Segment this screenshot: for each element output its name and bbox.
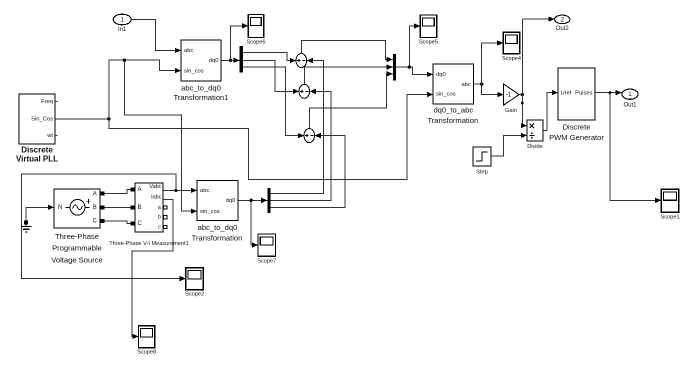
svg-text:Transformation1: Transformation1 [173, 93, 228, 102]
svg-text:2: 2 [560, 16, 564, 23]
svg-text:B: B [93, 205, 97, 211]
svg-text:1: 1 [120, 17, 124, 24]
svg-text:Freq: Freq [41, 99, 53, 105]
svg-text:PWM Generator: PWM Generator [549, 133, 604, 142]
svg-text:Discrete: Discrete [21, 146, 53, 155]
svg-text:Scope6: Scope6 [247, 39, 266, 45]
svg-text:abc_to_dq0: abc_to_dq0 [181, 84, 221, 93]
svg-text:Uref: Uref [561, 90, 572, 96]
svg-text:Iabc: Iabc [151, 194, 162, 200]
svg-text:Three-Phase: Three-Phase [55, 232, 99, 241]
svg-text:abc: abc [200, 188, 209, 194]
svg-text:Discrete: Discrete [563, 123, 591, 132]
svg-text:dq0: dq0 [436, 72, 446, 78]
svg-text:Gain: Gain [505, 108, 517, 114]
svg-text:Transformation: Transformation [192, 234, 243, 243]
svg-text:Sin_Cos: Sin_Cos [31, 116, 53, 122]
svg-text:Programmable: Programmable [52, 244, 102, 253]
svg-text:Voltage Source: Voltage Source [51, 255, 103, 264]
svg-text:Scope5: Scope5 [419, 39, 438, 45]
svg-text:C: C [92, 218, 97, 224]
svg-text:dq0: dq0 [226, 198, 236, 204]
svg-text:Scope2: Scope2 [185, 292, 204, 298]
svg-text:A: A [138, 187, 142, 193]
svg-text:Out1: Out1 [623, 102, 637, 108]
svg-text:abc_to_dq0: abc_to_dq0 [198, 223, 238, 232]
svg-text:abc: abc [461, 82, 470, 88]
svg-text:wt: wt [46, 133, 53, 139]
svg-text:Divide: Divide [527, 144, 543, 150]
svg-text:Transformation: Transformation [427, 116, 478, 125]
svg-text:Scope7: Scope7 [257, 258, 276, 264]
svg-text:A: A [93, 191, 97, 197]
svg-text:N: N [58, 205, 62, 211]
svg-text:Out2: Out2 [556, 26, 570, 32]
svg-text:B: B [138, 205, 142, 211]
svg-text:Three-Phase V-I Measurement1: Three-Phase V-I Measurement1 [109, 241, 189, 247]
svg-text:abc: abc [184, 48, 193, 54]
svg-text:Step: Step [476, 169, 488, 175]
svg-text:-1: -1 [506, 91, 512, 98]
svg-text:b: b [158, 215, 161, 221]
svg-text:Scope1: Scope1 [661, 214, 680, 220]
svg-text:sin_cos: sin_cos [184, 69, 204, 75]
svg-text:sin_cos: sin_cos [200, 209, 220, 215]
svg-text:sin_cos: sin_cos [436, 92, 456, 98]
svg-text:Scope8: Scope8 [137, 350, 156, 356]
svg-text:In1: In1 [118, 27, 127, 33]
svg-text:dq0_to_abc: dq0_to_abc [433, 106, 473, 115]
svg-text:1: 1 [628, 91, 632, 98]
svg-text:Virtual PLL: Virtual PLL [16, 155, 58, 164]
svg-text:c: c [158, 224, 161, 230]
svg-text:Scope4: Scope4 [502, 56, 521, 62]
svg-text:dq0: dq0 [209, 58, 219, 64]
svg-text:C: C [138, 221, 143, 227]
svg-text:Vabc: Vabc [149, 184, 161, 190]
svg-text:Pulses: Pulses [575, 90, 593, 96]
